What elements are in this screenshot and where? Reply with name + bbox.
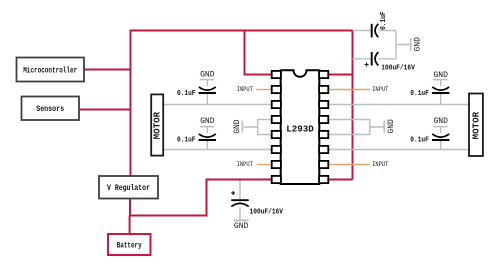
wire riser to pin L8 [207, 180, 273, 217]
svg-text:0.1uF: 0.1uF [177, 90, 196, 98]
ground left motor bottom cap [200, 117, 215, 127]
wire input pin L2 [256, 89, 272, 91]
wire right gnd bracket pins R4 R5 [328, 120, 384, 135]
wire battery drop [129, 216, 131, 235]
wire motor left to pin L3 [164, 104, 273, 106]
wire pin R3 to motor right [328, 104, 469, 106]
pin R2 [319, 86, 328, 93]
wire red right vertical bus [352, 30, 354, 180]
svg-text:GND: GND [434, 117, 449, 126]
capacitor 0.1uF right motor top [410, 80, 449, 104]
pin R7 [319, 161, 328, 168]
svg-text:INPUT: INPUT [237, 86, 253, 93]
ground right bracket [384, 119, 396, 134]
sensors block [22, 97, 80, 121]
ground top right [411, 37, 423, 52]
capacitor 0.1uF top right [372, 11, 388, 37]
IC L293D body [281, 70, 320, 184]
capacitor 0.1uF right motor bottom [410, 127, 449, 149]
wire pin R1 to bus [328, 74, 352, 76]
svg-text:0.1uF: 0.1uF [177, 137, 196, 145]
svg-text:100uF/16V: 100uF/16V [250, 208, 284, 216]
motor left block [151, 94, 163, 155]
pin L5 [272, 131, 281, 138]
pin R8 [319, 176, 328, 183]
capacitor 0.1uF left motor top [177, 80, 216, 104]
svg-text:INPUT: INPUT [372, 161, 388, 168]
svg-text:GND: GND [200, 70, 215, 79]
pin R1 [319, 71, 328, 78]
ground left bracket [233, 119, 242, 134]
svg-text:GND: GND [387, 119, 396, 134]
svg-text:MOTOR: MOTOR [471, 111, 481, 139]
svg-text:INPUT: INPUT [372, 86, 388, 93]
microcontroller block [17, 58, 85, 82]
pin L1 [272, 71, 281, 78]
capacitor 100uF/16V top right [365, 52, 416, 72]
wire top right caps [353, 31, 410, 59]
svg-text:GND: GND [233, 119, 242, 134]
wire left gnd bracket pins L4 L5 [244, 120, 273, 135]
pin L6 [272, 146, 281, 153]
motor right block [469, 94, 483, 157]
battery block [108, 234, 151, 255]
wire pin R6 to motor right [328, 149, 469, 151]
wire input pin R7 [328, 164, 370, 166]
pin L4 [272, 116, 281, 123]
pin L2 [272, 86, 281, 93]
pin R6 [319, 146, 328, 153]
wire motor left to pin L6 [164, 149, 273, 151]
pin L7 [272, 161, 281, 168]
svg-text:100uF/16V: 100uF/16V [381, 64, 415, 72]
svg-text:GND: GND [200, 117, 215, 126]
svg-text:GND: GND [413, 37, 422, 52]
svg-text:GND: GND [234, 222, 249, 231]
wire vregulator to corner [129, 199, 131, 216]
svg-text:0.1uF: 0.1uF [380, 11, 388, 30]
wire input pin L7 [257, 164, 272, 166]
wire bottom horizontal [130, 215, 207, 217]
pin L3 [272, 101, 281, 108]
pin R5 [319, 131, 328, 138]
wire red top bus [130, 30, 353, 32]
svg-text:0.1uF: 0.1uF [410, 90, 429, 98]
pin R3 [319, 101, 328, 108]
wire bottom electrolytic stubs [239, 181, 241, 220]
wire drop to pin L1 [245, 30, 273, 75]
svg-text:MOTOR: MOTOR [152, 111, 162, 139]
wire input pin R2 [328, 89, 370, 91]
svg-text:L293D: L293D [286, 124, 314, 135]
capacitor 100uF/16V bottom center [231, 191, 284, 216]
ground left motor top cap [200, 70, 215, 79]
wire sensors to bus [79, 109, 131, 111]
svg-text:Sensors: Sensors [36, 104, 64, 114]
svg-text:Battery: Battery [117, 240, 142, 250]
ground right motor bottom cap [433, 117, 448, 126]
svg-text:INPUT: INPUT [237, 161, 253, 168]
ground right motor top cap [433, 71, 448, 80]
svg-text:GND: GND [434, 71, 449, 80]
svg-text:0.1uF: 0.1uF [410, 137, 429, 145]
pin R4 [319, 116, 328, 123]
pin L8 [272, 176, 281, 183]
wire microcontroller to bus [84, 69, 131, 71]
ground bottom center [234, 220, 249, 230]
wire red left vertical bus [130, 30, 132, 177]
svg-text:V Regulator: V Regulator [107, 183, 150, 193]
svg-text:Microcontroller: Microcontroller [23, 65, 77, 75]
wire pin R8 to bus [328, 179, 352, 181]
capacitor 0.1uF left motor bottom [177, 127, 216, 149]
v regulator block [99, 176, 158, 199]
